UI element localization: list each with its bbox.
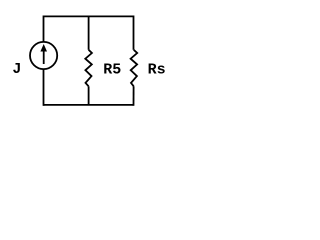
- wire middle branch top: [88, 16, 90, 49]
- wire middle branch bottom: [88, 86, 90, 105]
- svg-text:Rs: Rs: [148, 61, 166, 78]
- wire right branch top: [133, 16, 135, 50]
- wire left branch bottom: [43, 69, 45, 106]
- wire left branch top: [43, 16, 45, 43]
- wire bottom rail: [43, 104, 133, 106]
- resistor Rs: [131, 50, 138, 87]
- svg-text:R5: R5: [103, 62, 121, 79]
- svg-text:J: J: [12, 61, 21, 78]
- current source J circle: [30, 42, 57, 69]
- wire right branch bottom: [133, 86, 135, 106]
- current source J arrow: [40, 44, 47, 64]
- wire top rail: [43, 15, 133, 17]
- resistor R5: [85, 50, 92, 87]
